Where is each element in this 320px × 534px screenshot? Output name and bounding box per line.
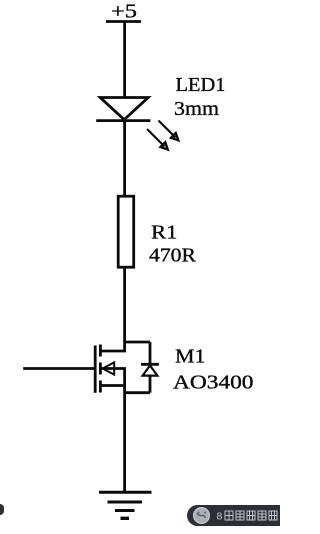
svg-text:8: 8	[217, 511, 223, 523]
svg-text:470R: 470R	[149, 245, 197, 267]
svg-text:3mm: 3mm	[174, 98, 219, 120]
svg-text:M1: M1	[175, 346, 206, 368]
svg-text:AO3400: AO3400	[173, 372, 254, 394]
svg-text:+5: +5	[111, 1, 137, 23]
svg-text:LED1: LED1	[176, 74, 226, 96]
svg-text:R1: R1	[151, 222, 178, 244]
